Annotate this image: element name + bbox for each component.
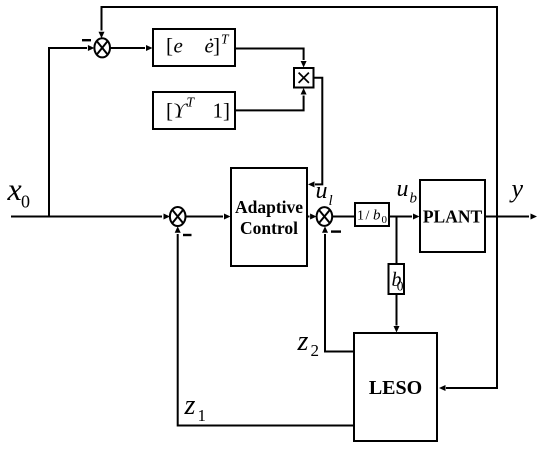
arrowhead into Adaptive Control left side (224, 214, 231, 220)
wire top feedback from output tap to S1 (102, 7, 498, 217)
label b0 inside block (392, 269, 404, 294)
wire branch x0 up to summing junction S1 (49, 48, 87, 217)
arrowhead into LESO top (394, 326, 400, 333)
block LESO (354, 333, 437, 441)
wire B2 output to multiplier (235, 96, 304, 111)
wire PLANT output y (485, 216, 529, 218)
wire multiplier output to Adaptive Control right side (313, 78, 322, 185)
svg-text:u: u (397, 176, 409, 202)
wire S3 output to 1/b0 block (332, 216, 355, 218)
svg-text:b: b (410, 191, 418, 207)
svg-text:1: 1 (198, 406, 207, 425)
arrowhead into S3 from left (310, 214, 317, 220)
arrowhead output y end (531, 214, 538, 220)
wire Adaptive Control output to S3 (307, 216, 310, 218)
arrowhead into Adaptive Control right side (308, 181, 315, 187)
arrowhead into S2 from x0 (164, 214, 171, 220)
svg-text:z: z (184, 390, 196, 421)
label [Upsilon^T 1] inside B2 (166, 95, 230, 123)
label [e edot]^T inside B1 (166, 32, 230, 58)
minus sign at S3 (331, 230, 341, 232)
summing junction S3 (317, 207, 333, 226)
svg-text:Control: Control (240, 218, 298, 238)
label z2 (297, 326, 320, 360)
summing junction S2 (170, 207, 186, 226)
arrowhead into B1 (146, 45, 153, 51)
svg-text:LESO: LESO (369, 377, 422, 399)
label z1 (184, 390, 207, 425)
svg-text:l: l (329, 193, 333, 209)
label u_b (397, 176, 418, 207)
block b0 (389, 264, 405, 294)
block B1 [e edot]^T (153, 29, 235, 66)
wire 1/b0 output to PLANT (389, 216, 412, 218)
arrowhead into S2 from bottom (z1) (175, 226, 181, 233)
label x0 (7, 171, 31, 212)
label Adaptive Control (235, 197, 303, 238)
wire B1 output to multiplier (235, 49, 304, 61)
label u_l (316, 178, 333, 209)
label LESO (369, 377, 422, 399)
svg-text:x: x (7, 171, 22, 207)
svg-text:0: 0 (21, 192, 30, 212)
svg-text:0: 0 (397, 279, 404, 294)
label 1/b0 inside block (357, 208, 388, 227)
block PLANT (420, 180, 485, 252)
wire S2 output to Adaptive Control (186, 216, 224, 218)
svg-text:u: u (316, 178, 328, 204)
svg-text:Adaptive: Adaptive (235, 197, 303, 217)
arrowhead into LESO right side (439, 385, 446, 391)
wire u_b branch down through b0 block to LESO (396, 217, 398, 326)
multiplier box (294, 68, 314, 88)
svg-text:y: y (509, 174, 524, 203)
svg-text:z: z (297, 326, 309, 357)
arrowhead into multiplier top (301, 61, 307, 68)
wire z1 from LESO to S2 (178, 234, 354, 426)
block 1/b0 (355, 203, 389, 226)
wire S1 output to block B1 (110, 47, 145, 49)
svg-text:2: 2 (311, 341, 320, 360)
arrowhead into S1 from left (88, 45, 95, 51)
block Adaptive Control (231, 168, 307, 266)
wire feedback down into LESO (446, 217, 497, 389)
arrowhead into S1 from top (99, 32, 105, 39)
wire x0 input line (11, 216, 162, 218)
label y (509, 174, 524, 203)
arrowhead into PLANT (413, 214, 420, 220)
svg-text:PLANT: PLANT (423, 207, 483, 227)
wire z2 from LESO to S3 (325, 234, 354, 352)
block B2 [Upsilon^T 1] (153, 92, 235, 129)
label PLANT (423, 207, 483, 227)
arrowhead into multiplier bottom (301, 88, 307, 95)
arrowhead into S3 from bottom (z2) (322, 226, 328, 233)
summing junction S1 (94, 38, 110, 57)
minus sign at S1 (82, 39, 91, 41)
minus sign at S2 (183, 234, 192, 236)
